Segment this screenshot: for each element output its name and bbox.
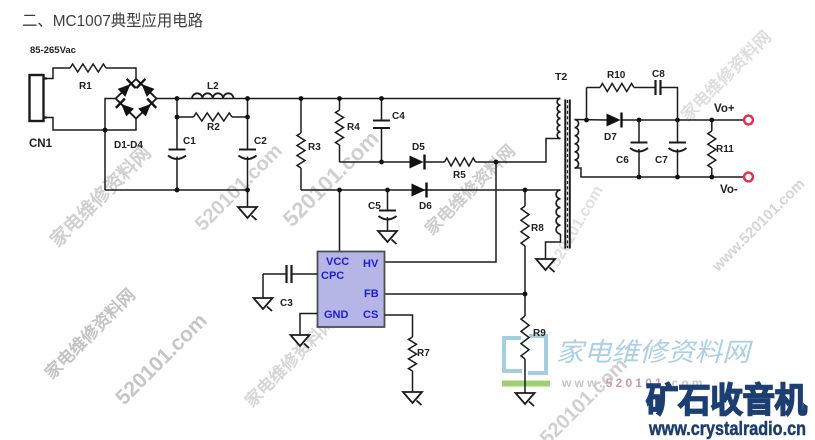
wire rectified bus	[157, 98, 561, 100]
svg-text:D1-D4: D1-D4	[114, 140, 143, 151]
wire bridge left tip to ground rail	[105, 99, 116, 191]
wire FB	[385, 293, 526, 295]
svg-text:Vo+: Vo+	[714, 103, 735, 115]
terminal Vo+	[744, 116, 753, 125]
svg-text:85-265Vac: 85-265Vac	[30, 45, 76, 56]
svg-text:CN1: CN1	[29, 138, 53, 150]
ground below C2	[238, 207, 257, 218]
junction FB/R9	[523, 292, 528, 297]
junction C7 top	[675, 118, 680, 123]
svg-text:R1: R1	[79, 81, 92, 92]
svg-text:L2: L2	[207, 81, 219, 92]
junction bus/R4	[337, 96, 342, 101]
resistor R7	[409, 337, 431, 392]
svg-text:家电维修资料网: 家电维修资料网	[556, 337, 753, 367]
svg-text:CPC: CPC	[321, 270, 344, 282]
svg-text:D5: D5	[412, 142, 425, 153]
capacitor C8	[652, 69, 665, 95]
junction bus/C1	[175, 96, 180, 101]
junction VCC stub	[337, 188, 342, 193]
junction bus/R3	[299, 96, 304, 101]
wire GND pin	[300, 314, 318, 336]
wire aux winding to ground	[546, 234, 561, 259]
junction CN1/bridge	[103, 128, 108, 133]
svg-text:R4: R4	[347, 122, 360, 133]
junction C1/rail	[175, 188, 180, 193]
svg-text:C2: C2	[254, 136, 267, 147]
wire R5 to primary	[476, 139, 561, 163]
ground below R7	[403, 392, 422, 403]
junction bus/C2	[245, 96, 250, 101]
diode D7	[604, 113, 622, 144]
wire CN1 bottom to junction	[47, 118, 105, 131]
resistor R10	[600, 70, 634, 92]
ground below C5	[378, 231, 397, 242]
resistor R2	[177, 113, 248, 133]
svg-text:FB: FB	[364, 288, 379, 300]
svg-text:R10: R10	[607, 70, 626, 81]
capacitor C2	[239, 99, 268, 208]
capacitor C4	[373, 99, 405, 163]
svg-text:CS: CS	[363, 309, 378, 321]
capacitor C1	[168, 99, 196, 191]
svg-text:R9: R9	[533, 328, 546, 339]
wire snubber top left	[587, 87, 601, 89]
capacitor C3	[263, 265, 318, 309]
wire CS to R7	[385, 315, 413, 337]
resistor R3	[297, 99, 321, 191]
svg-text:www.crystalradio.cn: www.crystalradio.cn	[648, 418, 806, 440]
junction C7 bottom	[675, 175, 680, 180]
wire R4 to D5	[340, 161, 410, 163]
wire CN1 top to R1	[47, 68, 70, 79]
junction R11 bottom	[709, 175, 714, 180]
wire secondary top	[575, 119, 607, 122]
transformer T2	[555, 71, 579, 249]
svg-text:R7: R7	[417, 348, 430, 359]
svg-text:R8: R8	[531, 223, 544, 234]
svg-text:R11: R11	[716, 144, 734, 155]
wire snubber left riser	[586, 88, 588, 121]
junction C6 bottom	[637, 175, 642, 180]
resistor R5	[445, 158, 476, 181]
junction R8 top	[523, 188, 528, 193]
junction R11 top	[709, 118, 714, 123]
diode D5	[410, 142, 426, 170]
svg-text:R3: R3	[308, 142, 321, 153]
wire C8 to output	[661, 88, 678, 121]
svg-text:D7: D7	[604, 132, 617, 143]
resistor R9	[521, 294, 546, 393]
svg-text:Vo-: Vo-	[720, 184, 738, 196]
svg-text:T2: T2	[555, 71, 567, 83]
svg-text:C3: C3	[280, 298, 293, 309]
junction bus/C4	[379, 96, 384, 101]
wire R1 to bridge top tip	[106, 68, 136, 79]
diode D6	[412, 183, 433, 213]
wire output positive	[622, 119, 745, 121]
svg-text:二、MC1007典型应用电路: 二、MC1007典型应用电路	[22, 11, 203, 30]
junction C1/R2	[175, 115, 180, 120]
wire ground rail	[105, 189, 248, 191]
wire D5 to R5	[425, 161, 445, 163]
ground at GND pin	[291, 335, 310, 346]
svg-text:R5: R5	[453, 170, 466, 181]
junction C5	[385, 188, 390, 193]
svg-text:VCC: VCC	[326, 256, 349, 268]
svg-text:HV: HV	[363, 258, 379, 270]
bridge rectifier D1~D4	[114, 79, 157, 151]
wire R10 to C8	[634, 87, 655, 89]
resistor R11	[708, 120, 734, 177]
ground at aux winding	[536, 259, 555, 270]
svg-text:C4: C4	[392, 111, 405, 122]
resistor R4	[336, 99, 361, 163]
resistor R1	[70, 64, 106, 92]
resistor R8	[521, 190, 544, 294]
svg-text:C6: C6	[616, 155, 629, 166]
junction snubber left	[584, 118, 589, 123]
svg-text:矿石收音机: 矿石收音机	[646, 382, 807, 420]
ground at C3	[254, 298, 273, 309]
svg-text:GND: GND	[324, 309, 349, 321]
wire low-voltage line	[301, 189, 561, 191]
capacitor C7	[655, 120, 687, 177]
capacitor C6	[616, 120, 648, 177]
svg-text:C8: C8	[652, 69, 665, 80]
capacitor C5	[368, 190, 397, 231]
wire secondary bottom	[575, 168, 745, 177]
ground below R9	[516, 393, 535, 404]
junction C6 top	[637, 118, 642, 123]
svg-text:R2: R2	[207, 122, 220, 133]
connector CN1	[29, 75, 53, 150]
terminal Vo-	[744, 173, 753, 182]
junction R2/C2	[245, 115, 250, 120]
svg-text:D6: D6	[419, 201, 432, 212]
IC U1 MC1007	[318, 252, 385, 328]
wire HV riser	[385, 162, 497, 262]
junction rail/C2	[245, 188, 250, 193]
junction snubber/HV	[494, 160, 499, 165]
svg-text:C7: C7	[655, 155, 668, 166]
wire VCC stub	[339, 190, 341, 252]
wire bridge bottom tip	[105, 119, 136, 131]
junction C4/D5 line	[379, 160, 384, 165]
inductor L2	[192, 81, 234, 99]
svg-text:C5: C5	[368, 201, 381, 212]
svg-text:C1: C1	[183, 136, 196, 147]
